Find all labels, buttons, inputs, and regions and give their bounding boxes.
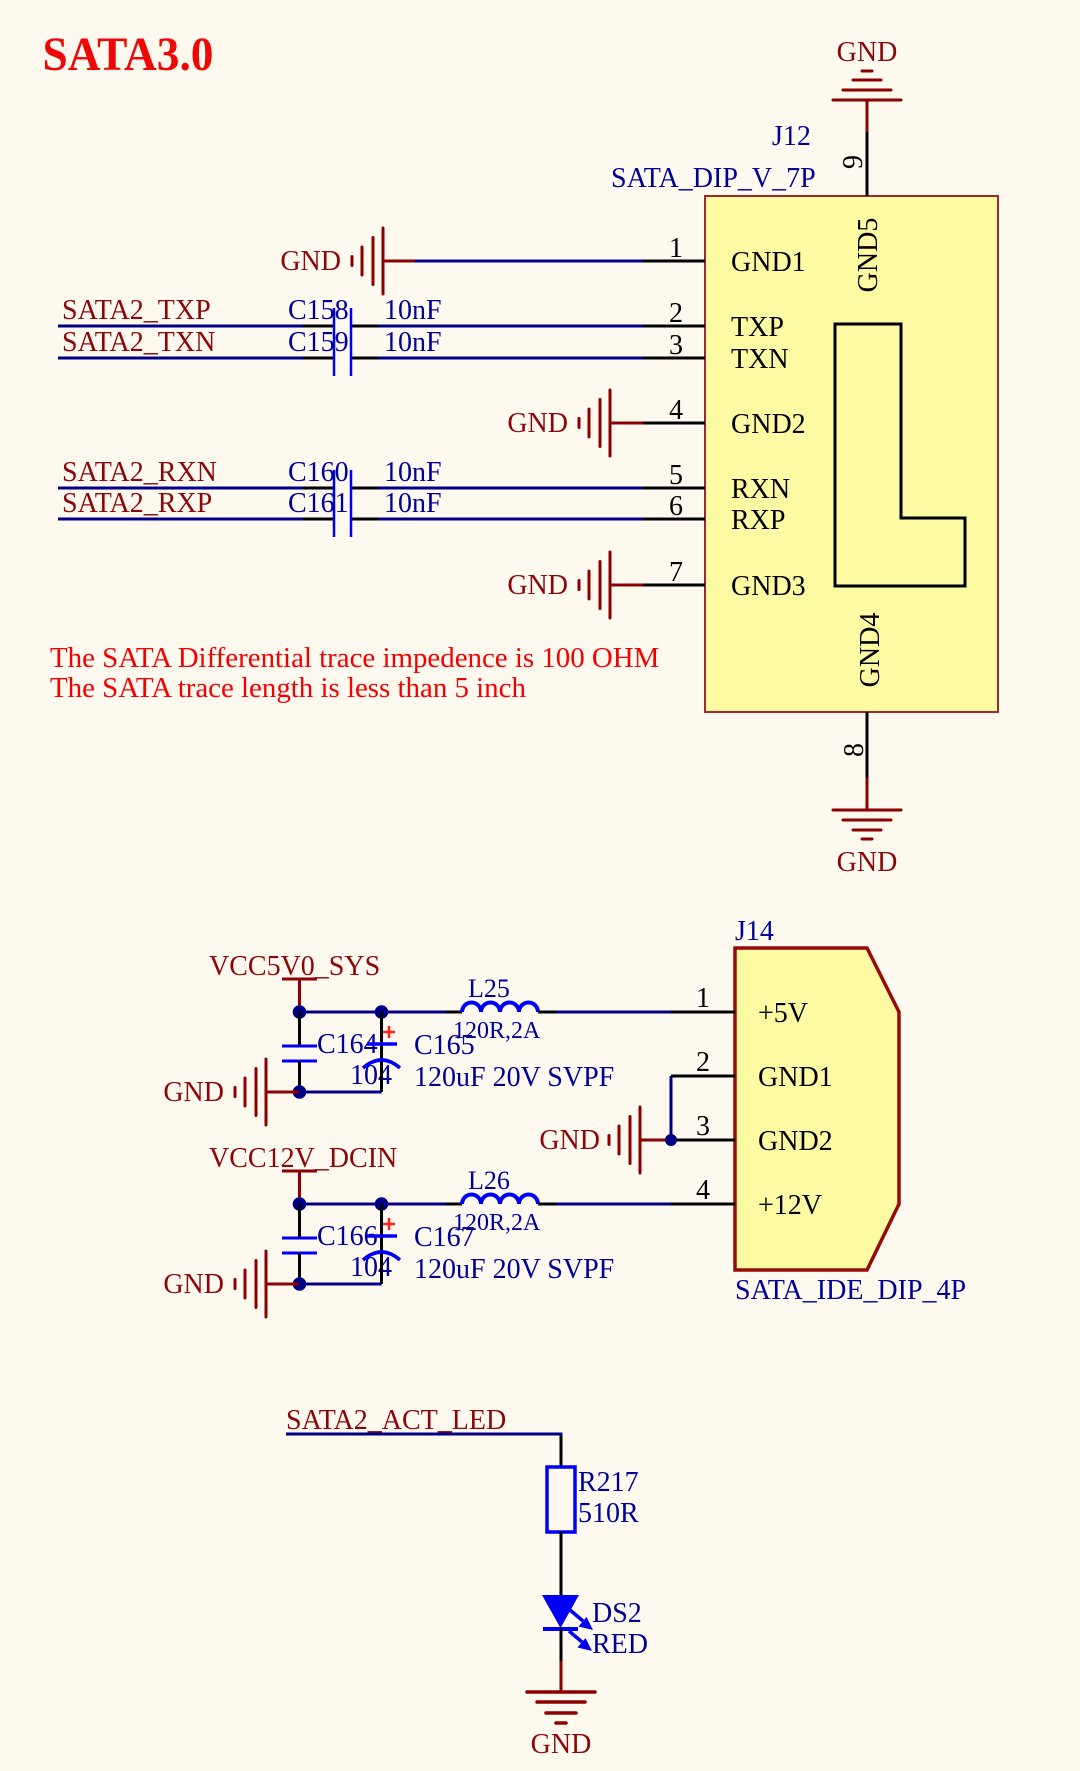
capacitor C166 lead top (298, 1204, 301, 1238)
inductor L25 lead left (446, 1011, 462, 1014)
svg-text:C158: C158 (288, 295, 349, 326)
svg-text:VCC5V0_SYS: VCC5V0_SYS (209, 951, 380, 982)
power stem VCC5V0_SYS (298, 979, 301, 1012)
svg-text:120R,2A: 120R,2A (453, 1018, 541, 1044)
svg-text:104: 104 (350, 1252, 392, 1283)
svg-text:SATA3.0: SATA3.0 (43, 28, 214, 81)
capacitor C167 curved plate (363, 1252, 400, 1260)
svg-text:10nF: 10nF (384, 327, 442, 358)
svg-text:GND: GND (163, 1269, 224, 1300)
svg-text:GND1: GND1 (731, 247, 806, 278)
svg-text:7: 7 (669, 557, 683, 588)
svg-text:GND5: GND5 (853, 218, 884, 293)
J12 pin 2 stub (643, 325, 705, 328)
svg-text:120uF 20V SVPF: 120uF 20V SVPF (414, 1062, 614, 1093)
svg-text:GND2: GND2 (758, 1126, 833, 1157)
svg-text:4: 4 (669, 395, 683, 426)
svg-text:10nF: 10nF (384, 488, 442, 519)
wire resistor to LED (560, 1532, 563, 1597)
svg-text:L26: L26 (468, 1166, 510, 1195)
wire GND to pin1 (415, 260, 643, 263)
svg-text:C160: C160 (288, 457, 349, 488)
ground lead J14 (640, 1139, 671, 1142)
capacitor C166 lead bottom (298, 1253, 301, 1284)
svg-text:TXP: TXP (731, 312, 784, 343)
svg-text:3: 3 (669, 330, 683, 361)
ground lead pin7 (610, 584, 643, 587)
connector J14 body (735, 948, 899, 1270)
svg-text:GND: GND (163, 1077, 224, 1108)
svg-text:10nF: 10nF (384, 295, 442, 326)
svg-text:C159: C159 (288, 327, 349, 358)
plus sign C165 (383, 1026, 395, 1038)
wire C160 to pin5 (378, 487, 643, 490)
junction VCC5V left (293, 1005, 307, 1019)
inductor L26 lead left (446, 1203, 462, 1206)
svg-text:4: 4 (696, 1175, 710, 1206)
svg-text:SATA2_TXN: SATA2_TXN (62, 327, 215, 358)
ground lead C166 (266, 1283, 299, 1286)
svg-text:GND: GND (837, 37, 898, 68)
ground symbol pin7 (579, 552, 610, 618)
ground symbol pin1 (352, 228, 383, 294)
wire C161 to pin6 (378, 518, 643, 521)
svg-text:J14: J14 (735, 916, 774, 947)
LED DS2 triangle (542, 1595, 579, 1628)
svg-text:DS2: DS2 (592, 1598, 642, 1629)
J14 pin 4 stub (671, 1203, 735, 1206)
svg-text:The SATA Differential trace im: The SATA Differential trace impedence is… (50, 642, 659, 674)
ground lead C164 (266, 1091, 299, 1094)
svg-text:2: 2 (669, 298, 683, 329)
capacitor C164 plates (282, 1046, 317, 1061)
resistor R217 body (547, 1467, 575, 1532)
capacitor C165 curved plate (363, 1060, 400, 1068)
capacitor C161 lead right (351, 518, 378, 521)
svg-text:120R,2A: 120R,2A (453, 1210, 541, 1236)
svg-text:GND: GND (507, 570, 568, 601)
svg-text:GND2: GND2 (731, 409, 806, 440)
J12 pin 5 stub (643, 487, 705, 490)
svg-text:2: 2 (696, 1047, 710, 1078)
connector J12 body (705, 196, 998, 712)
ground stem LED (560, 1661, 563, 1692)
ground symbol C166 (235, 1251, 266, 1317)
inductor L26 lead right (538, 1203, 556, 1206)
J12 pin 6 stub (643, 518, 705, 521)
svg-text:104: 104 (350, 1060, 392, 1091)
J14 pin 3 stub (671, 1139, 735, 1142)
LED DS2 cathode bar (543, 1627, 578, 1631)
capacitor C159 lead right (351, 357, 378, 360)
capacitor C158 plates (334, 308, 351, 343)
J12 pin 7 stub (643, 584, 705, 587)
J12 pin 4 stub (643, 422, 705, 425)
svg-text:510R: 510R (578, 1498, 639, 1529)
power bar VCC12V_DCIN (282, 1170, 317, 1173)
capacitor C161 plates (334, 504, 351, 537)
capacitor C165 lead (380, 1012, 383, 1092)
svg-text:SATA_IDE_DIP_4P: SATA_IDE_DIP_4P (735, 1275, 966, 1306)
capacitor C161 lead left (303, 518, 334, 521)
svg-text:L25: L25 (468, 974, 510, 1003)
wire SATA2_TXP left (58, 325, 303, 328)
wire VCC12V bottom (to ground) (299, 1283, 382, 1286)
wire SATA2_TXN left (58, 357, 303, 360)
ground symbol pin8 (earth, down) (833, 810, 901, 839)
svg-text:The SATA trace length is less: The SATA trace length is less than 5 inc… (50, 672, 526, 704)
capacitor C159 plates (334, 343, 351, 376)
ground symbol pin4 (579, 390, 610, 456)
svg-text:GND: GND (280, 246, 341, 277)
svg-text:120uF 20V SVPF: 120uF 20V SVPF (414, 1254, 614, 1285)
ground symbol J14 (609, 1107, 640, 1173)
svg-text:9: 9 (838, 155, 869, 169)
inductor L26 arcs (462, 1195, 538, 1205)
inductor L25 arcs (462, 1003, 538, 1013)
svg-text:GND4: GND4 (855, 613, 886, 688)
svg-text:SATA_DIP_V_7P: SATA_DIP_V_7P (611, 163, 816, 194)
wire pin2 to ground net (670, 1076, 673, 1140)
svg-text:VCC12V_DCIN: VCC12V_DCIN (209, 1143, 397, 1174)
capacitor C160 plates (334, 470, 351, 504)
capacitor C158 lead left (303, 325, 334, 328)
svg-text:RXP: RXP (731, 505, 785, 536)
svg-text:6: 6 (669, 491, 683, 522)
capacitor C158 lead right (351, 325, 378, 328)
wire SATA2_RXN left (58, 487, 303, 490)
J14 pin 2 stub (671, 1075, 735, 1078)
ground stem pin8 (866, 778, 869, 810)
ground symbol C164 (235, 1059, 266, 1125)
svg-text:RED: RED (592, 1629, 648, 1660)
wire VCC5V bottom (to ground) (299, 1091, 382, 1094)
connector key L-shape (835, 324, 965, 586)
ground lead pin4 (610, 422, 643, 425)
J14 pin 1 stub (671, 1011, 735, 1014)
ground symbol LED (earth, down) (527, 1692, 595, 1723)
capacitor C167 lead (380, 1204, 383, 1284)
svg-text:8: 8 (839, 743, 870, 757)
svg-text:GND: GND (837, 847, 898, 878)
capacitor C160 lead right (351, 487, 378, 490)
ground stem pin9 (866, 100, 869, 132)
svg-text:TXN: TXN (731, 344, 789, 375)
wire to resistor (560, 1436, 563, 1467)
J12 pin 3 stub (643, 357, 705, 360)
junction VCC5V right (375, 1005, 389, 1019)
capacitor C164 lead bottom (298, 1061, 301, 1092)
inductor L25 lead right (538, 1011, 556, 1014)
svg-text:10nF: 10nF (384, 457, 442, 488)
svg-text:C161: C161 (288, 488, 349, 519)
wire L25 to J14 pin1 (556, 1011, 671, 1014)
wire L26 to J14 pin4 (556, 1203, 671, 1206)
svg-text:3: 3 (696, 1111, 710, 1142)
svg-text:1: 1 (669, 233, 683, 264)
svg-text:+5V: +5V (758, 998, 808, 1029)
junction VCC12V left (293, 1197, 307, 1211)
capacitor C166 plates (282, 1238, 317, 1253)
wire C159 to pin3 (378, 357, 643, 360)
J12 pin 1 stub (643, 260, 705, 263)
junction bottom VCC12V (293, 1277, 307, 1291)
capacitor C159 lead left (303, 357, 334, 360)
plus sign C167 (383, 1218, 395, 1230)
svg-text:GND1: GND1 (758, 1062, 833, 1093)
svg-text:SATA2_RXN: SATA2_RXN (62, 457, 217, 488)
svg-text:GND3: GND3 (731, 571, 806, 602)
junction bottom VCC5V (293, 1085, 307, 1099)
svg-text:R217: R217 (578, 1467, 639, 1498)
power bar VCC5V0_SYS (282, 978, 317, 981)
svg-text:5: 5 (669, 460, 683, 491)
LED arrow 2 (569, 1631, 592, 1651)
svg-text:J12: J12 (772, 121, 811, 152)
wire VCC12V rail (299, 1203, 446, 1206)
wire VCC5V rail (299, 1011, 446, 1014)
LED arrow 1 (570, 1610, 593, 1630)
ground symbol pin9 (earth, up) (833, 71, 901, 100)
capacitor C167 top plate (367, 1234, 397, 1238)
wire SATA2_ACT_LED (286, 1434, 561, 1436)
svg-text:SATA2_TXP: SATA2_TXP (62, 295, 211, 326)
J12 pin 8 wire (bottom) (866, 712, 869, 778)
capacitor C160 lead left (303, 487, 334, 490)
svg-text:+12V: +12V (758, 1190, 822, 1221)
capacitor C164 lead top (298, 1012, 301, 1046)
capacitor C165 top plate (367, 1042, 397, 1046)
svg-text:GND: GND (531, 1729, 592, 1760)
svg-text:1: 1 (696, 983, 710, 1014)
J12 pin 9 wire (top) (866, 132, 869, 196)
wire SATA2_RXP left (58, 518, 303, 521)
wire LED to ground (560, 1629, 563, 1661)
wire C158 to pin2 (378, 325, 643, 328)
power stem VCC12V_DCIN (298, 1171, 301, 1204)
svg-text:GND: GND (507, 408, 568, 439)
svg-text:SATA2_RXP: SATA2_RXP (62, 488, 212, 519)
svg-text:GND: GND (539, 1125, 600, 1156)
svg-text:SATA2_ACT_LED: SATA2_ACT_LED (286, 1405, 506, 1436)
svg-text:RXN: RXN (731, 474, 790, 505)
junction VCC12V right (375, 1197, 389, 1211)
junction J14 ground (665, 1134, 677, 1146)
ground lead pin1 (383, 260, 415, 263)
